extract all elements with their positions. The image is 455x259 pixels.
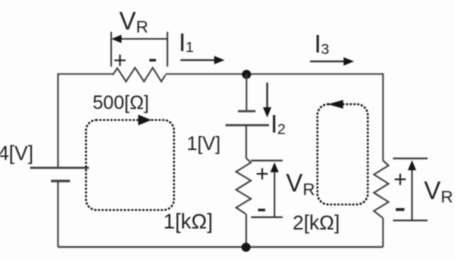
battery E1 4V long plate	[30, 167, 89, 169]
arrow I3	[310, 60, 345, 62]
wire top left segment	[58, 73, 113, 75]
arrow I2 (downward)	[266, 83, 268, 109]
VR bracket right : bottom bar	[393, 219, 428, 221]
VR bracket top : arrow line pointing left	[120, 38, 167, 40]
battery E2 1V long plate	[226, 124, 270, 126]
wire bottom	[58, 246, 383, 248]
VR bracket right : arrow line pointing up	[411, 167, 413, 220]
battery E2 1V short plate	[238, 110, 256, 112]
resistor 2k ohm (right)	[374, 160, 389, 218]
wire middle branch upper	[246, 74, 248, 110]
wire right vertical lower	[382, 218, 384, 247]
wire left vertical upper	[57, 73, 59, 167]
svg-text:+: +	[256, 160, 269, 186]
svg-text:+: +	[113, 47, 126, 73]
VR bracket middle : bottom bar	[251, 216, 283, 218]
svg-text:+: +	[394, 166, 407, 192]
mesh loop right (dotted, counter-clockwise arrow)	[317, 104, 367, 204]
minus sign middle	[258, 209, 265, 212]
VR bracket top : right bar	[166, 32, 168, 67]
resistor 500 ohm (top)	[113, 68, 166, 82]
node bottom (junction dot)	[241, 243, 250, 252]
VR bracket top : left bar	[110, 32, 112, 67]
wire middle branch mid	[245, 126, 247, 158]
VR bracket right : top bar	[393, 157, 428, 159]
resistor 1k ohm (middle)	[236, 158, 251, 214]
VR bracket middle : top bar	[251, 160, 283, 162]
wire left vertical lower	[57, 182, 59, 248]
svg-text:500[Ω]: 500[Ω]	[93, 93, 149, 114]
minus sign right	[396, 208, 405, 211]
svg-text:4[V]: 4[V]	[0, 143, 33, 165]
minus sign top	[149, 59, 156, 62]
wire top right segment	[166, 73, 384, 75]
mesh loop left (dotted, clockwise arrow)	[86, 120, 174, 210]
arrow I1	[180, 59, 215, 61]
svg-text:2[kΩ]: 2[kΩ]	[293, 213, 340, 235]
svg-text:1[kΩ]: 1[kΩ]	[163, 210, 213, 233]
wire middle branch lower	[245, 214, 247, 247]
wire right vertical upper	[382, 73, 384, 160]
node top (junction dot)	[242, 70, 251, 79]
VR bracket middle : arrow line pointing up	[274, 169, 276, 217]
svg-text:1[V]: 1[V]	[187, 134, 221, 155]
battery E1 4V short plate	[51, 180, 70, 183]
